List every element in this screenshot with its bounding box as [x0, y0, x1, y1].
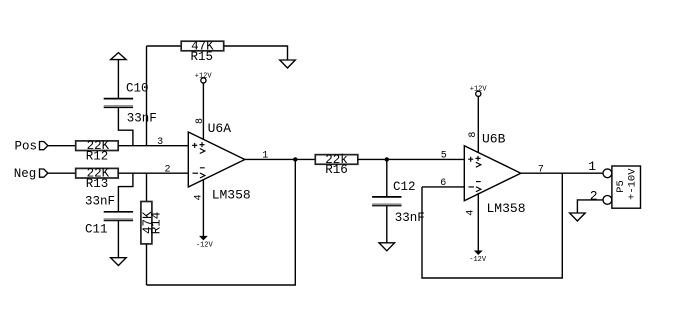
wire P5 pin2 to ground [577, 200, 603, 213]
wire feedback U6B loop [422, 173, 562, 278]
svg-text:-12V: -12V [469, 256, 487, 264]
ground below C12 [379, 243, 395, 251]
wire R14 top [146, 173, 148, 201]
svg-text:C10: C10 [126, 82, 149, 96]
U6B input minus mark [469, 186, 475, 188]
junction node 1 [293, 157, 297, 161]
resistor R14 body [141, 202, 152, 244]
svg-text:R14: R14 [150, 212, 164, 235]
resistor R13 body [76, 168, 119, 178]
power +12V circle U6B [476, 91, 481, 96]
op-amp U6A triangle [188, 132, 245, 187]
svg-text:4: 4 [193, 194, 204, 200]
svg-text:U6B: U6B [482, 132, 506, 147]
svg-text:U6A: U6A [208, 121, 232, 136]
svg-text:R13: R13 [86, 177, 109, 191]
svg-text:33nF: 33nF [127, 112, 157, 126]
svg-text:33nF: 33nF [85, 194, 115, 208]
wire R14 bottom [146, 244, 148, 285]
svg-text:2: 2 [164, 165, 170, 176]
svg-text:C12: C12 [393, 180, 416, 194]
wire R15 left column down [146, 46, 148, 146]
svg-text:4: 4 [465, 210, 476, 216]
wire feedback U6A bottom [147, 159, 296, 285]
capacitor C11 plates [104, 211, 133, 213]
svg-text:6: 6 [440, 178, 446, 189]
svg-text:C11: C11 [85, 223, 108, 237]
resistor R15 body [181, 41, 224, 51]
svg-text:8: 8 [195, 118, 206, 124]
power -12V arrow U6B [474, 251, 483, 256]
wire R13 to pin2 [118, 172, 188, 174]
U6B V- mark [476, 182, 481, 192]
power +12V circle U6A [201, 78, 206, 83]
svg-text:Neg: Neg [14, 167, 37, 181]
op-amp U6B triangle [464, 146, 521, 201]
connector P5 pin1 circle [603, 169, 612, 178]
ground below P5 pin2 [570, 213, 586, 221]
wire C11 to ground [117, 221, 119, 258]
wire Pos to R12 [48, 145, 76, 147]
connector P5 pin2 circle [603, 196, 612, 205]
wire pin2 net down to C11 [118, 173, 132, 211]
U6A input minus mark [193, 172, 199, 174]
svg-text:P5: P5 [615, 180, 627, 193]
U6A V+ mark [200, 142, 205, 153]
wire C12 to ground [386, 206, 388, 243]
wire ground to C10 [117, 60, 119, 98]
power -12V arrow U6A [199, 236, 208, 241]
wire U6A output [245, 158, 315, 160]
svg-text:Pos: Pos [15, 140, 38, 154]
U6B pin8 power wire [477, 96, 479, 152]
svg-text:+-10V: +-10V [627, 168, 639, 200]
wire node2 to C12 [386, 159, 388, 196]
svg-text:+12V: +12V [470, 86, 488, 94]
junction node 2 [385, 157, 389, 161]
wire R16 to pin5 [358, 158, 465, 160]
wire C10 to pin3 net [118, 108, 132, 146]
svg-text:3: 3 [157, 137, 163, 148]
svg-text:LM358: LM358 [487, 201, 526, 216]
wire U6B output [521, 172, 603, 174]
ground flipped above C10 [111, 53, 127, 60]
U6B input plus mark [468, 157, 473, 162]
wire pin6 [422, 186, 464, 188]
capacitor C12 plates [372, 196, 401, 198]
wire Neg to R13 [48, 172, 76, 174]
port Pos connector symbol [40, 142, 48, 150]
wire R15 right to ground [224, 46, 288, 60]
svg-text:5: 5 [441, 150, 447, 161]
port Neg connector symbol [40, 169, 48, 177]
ground below C11 [111, 258, 127, 266]
resistor R12 body [76, 141, 119, 151]
svg-text:1: 1 [588, 159, 596, 174]
wire R12 to pin3 [118, 145, 188, 147]
U6B pin4 power wire [477, 193, 479, 251]
svg-text:R15: R15 [191, 50, 214, 64]
svg-text:+12V: +12V [195, 72, 213, 80]
U6A pin4 power wire [202, 179, 204, 236]
svg-text:33nF: 33nF [395, 211, 425, 225]
resistor R16 body [315, 155, 358, 165]
svg-text:2: 2 [590, 188, 598, 203]
connector P5 body [612, 166, 641, 208]
svg-text:-12V: -12V [196, 241, 214, 249]
ground right of R15 [280, 60, 296, 68]
svg-text:R12: R12 [86, 149, 109, 163]
svg-text:R16: R16 [325, 163, 348, 177]
svg-text:8: 8 [468, 132, 479, 138]
capacitor C10 plates [104, 98, 133, 100]
U6A V- mark [200, 168, 205, 178]
U6A input plus mark [192, 143, 197, 148]
wire R15 left [147, 45, 182, 47]
U6A pin8 power wire [202, 83, 204, 140]
U6B V+ mark [476, 156, 481, 167]
svg-text:LM358: LM358 [212, 187, 251, 202]
